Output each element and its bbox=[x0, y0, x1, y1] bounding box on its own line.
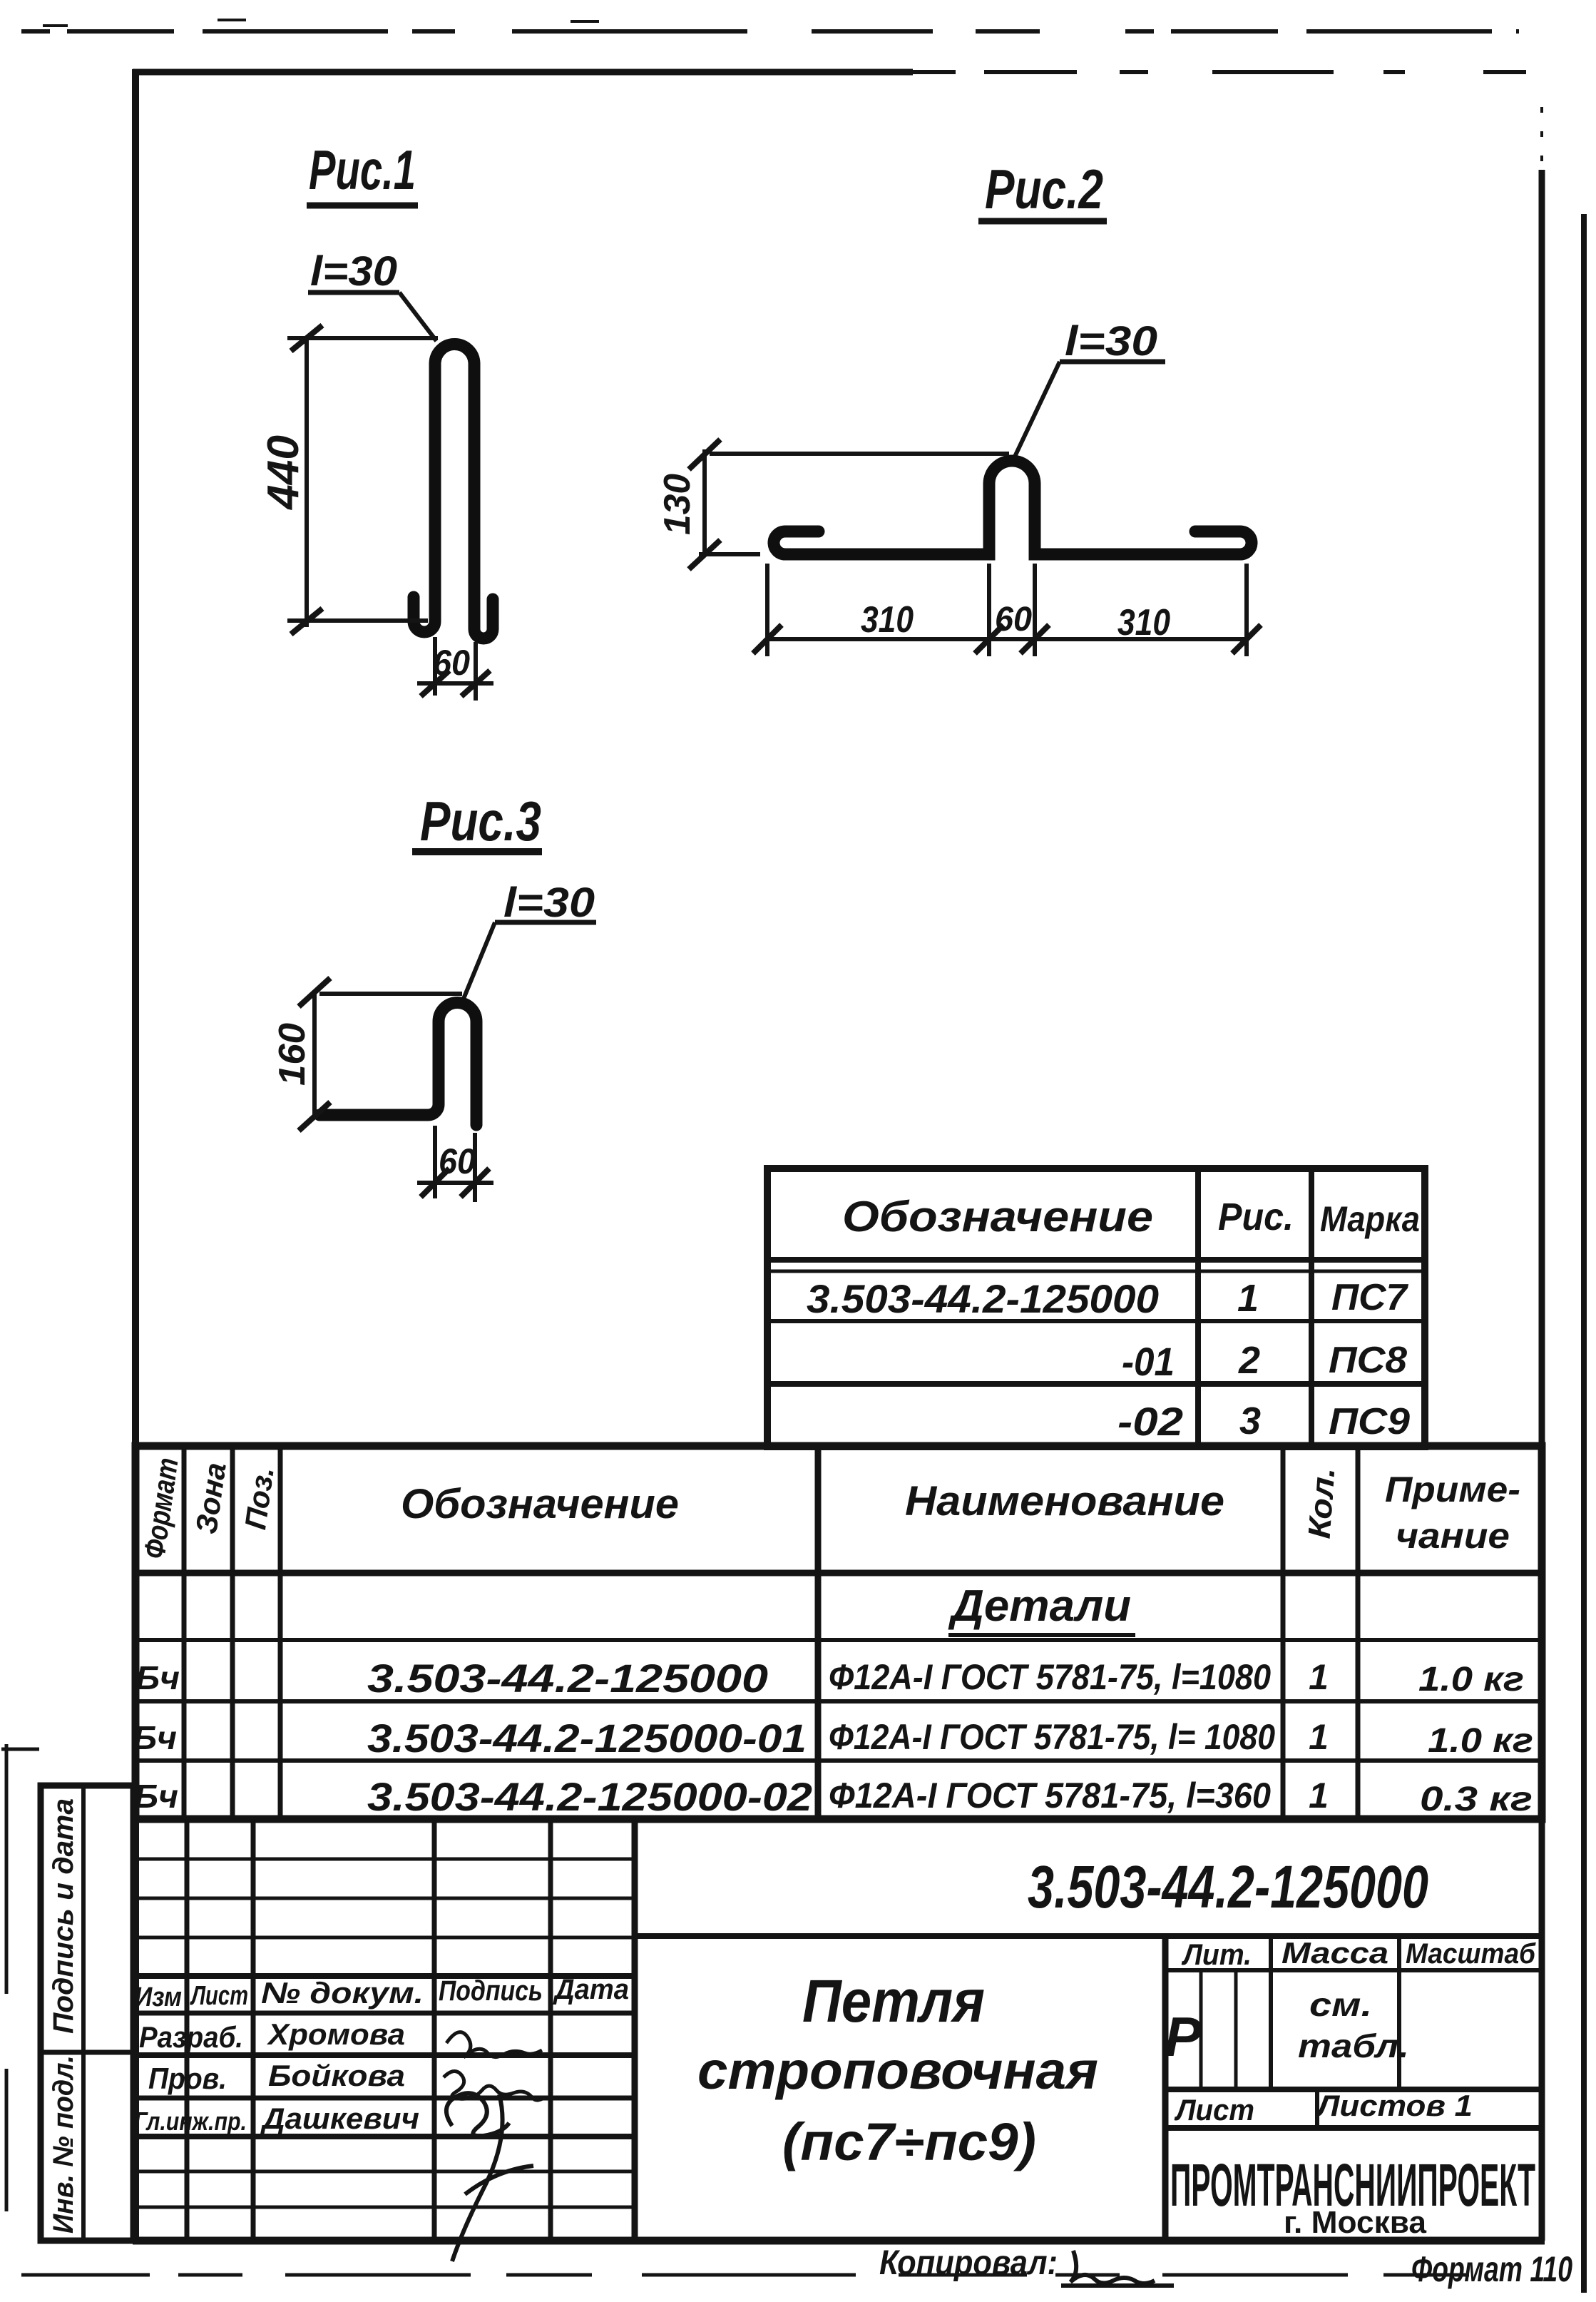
stamp ПРОМТРАНСНИИПРОЕКТ bbox=[1170, 2151, 1535, 2240]
svg-text:Кол.: Кол. bbox=[1302, 1466, 1342, 1539]
drawing frame left border bbox=[132, 69, 139, 2241]
svg-text:Рис.2: Рис.2 bbox=[985, 158, 1103, 220]
dimension 60 fig1 bbox=[417, 637, 493, 701]
page left edge artifact bbox=[5, 1744, 9, 2211]
dimension 60 fig3 bbox=[417, 1126, 493, 1202]
svg-text:130: 130 bbox=[657, 474, 698, 535]
svg-text:Разраб.: Разраб. bbox=[139, 2020, 243, 2054]
svg-text:Рис.3: Рис.3 bbox=[420, 790, 541, 852]
svg-text:Р: Р bbox=[1165, 2005, 1202, 2068]
svg-text:см.: см. bbox=[1309, 1986, 1372, 2023]
label Рис.3 bbox=[412, 790, 542, 852]
dimension 160 fig3 bbox=[272, 978, 462, 1131]
row Лист / Листов 1 bbox=[1174, 2089, 1473, 2127]
BOM section label Детали bbox=[948, 1582, 1135, 1635]
svg-text:(пс7÷пс9): (пс7÷пс9) bbox=[782, 2112, 1036, 2171]
svg-text:l=30: l=30 bbox=[1065, 318, 1157, 365]
svg-text:0.3 кг: 0.3 кг bbox=[1420, 1781, 1533, 1818]
svg-text:Ф12А-I ГОСТ 5781-75, l= 1080: Ф12А-I ГОСТ 5781-75, l= 1080 bbox=[829, 1717, 1275, 1757]
svg-text:Гл.инж.пр.: Гл.инж.пр. bbox=[134, 2107, 247, 2136]
small table row 2 bbox=[1122, 1339, 1407, 1384]
main title Петля строповочная (пс7÷пс9) bbox=[697, 1967, 1098, 2171]
svg-text:Изм: Изм bbox=[135, 1982, 182, 2012]
svg-text:3.503-44.2-125000: 3.503-44.2-125000 bbox=[807, 1276, 1159, 1321]
page right edge line bbox=[1581, 214, 1587, 2293]
top page-edge dashed line bbox=[21, 20, 1519, 31]
wire loop ПС8 fig2 bbox=[774, 461, 1252, 554]
svg-text:Рис.: Рис. bbox=[1218, 1196, 1294, 1238]
row Гл.инж.пр. Дашкевич bbox=[134, 2102, 419, 2136]
svg-text:3.503-44.2-125000: 3.503-44.2-125000 bbox=[367, 1656, 768, 1701]
svg-text:ПС7: ПС7 bbox=[1331, 1277, 1408, 1318]
svg-text:Бч: Бч bbox=[133, 1719, 177, 1756]
BOM grid bbox=[135, 1446, 1542, 1819]
svg-text:ПС9: ПС9 bbox=[1329, 1401, 1410, 1442]
svg-text:3.503-44.2-125000: 3.503-44.2-125000 bbox=[1028, 1853, 1428, 1920]
svg-text:310: 310 bbox=[1117, 602, 1170, 643]
signature Бойкова bbox=[444, 2071, 545, 2100]
value см. табл. bbox=[1298, 1986, 1409, 2064]
signature after Копировал bbox=[1061, 2251, 1174, 2286]
svg-text:Обозначение: Обозначение bbox=[401, 1481, 679, 1527]
svg-text:№ докум.: № докум. bbox=[261, 1976, 424, 2010]
svg-text:табл.: табл. bbox=[1298, 2027, 1409, 2064]
BOM row 1 bbox=[135, 1656, 1524, 1701]
note l=30 fig2 bbox=[1015, 318, 1165, 457]
svg-text:-02: -02 bbox=[1117, 1399, 1183, 1444]
svg-text:60: 60 bbox=[995, 601, 1032, 638]
svg-text:Бойкова: Бойкова bbox=[268, 2059, 405, 2092]
svg-text:Хромова: Хромова bbox=[267, 2017, 405, 2051]
small table row 1 bbox=[807, 1276, 1408, 1321]
drawing frame right border bbox=[1539, 170, 1545, 2241]
svg-text:Петля: Петля bbox=[802, 1967, 985, 2034]
svg-text:Обозначение: Обозначение bbox=[842, 1193, 1153, 1241]
svg-text:Бч: Бч bbox=[135, 1659, 180, 1696]
svg-text:160: 160 bbox=[272, 1023, 313, 1086]
note l=30 fig3 bbox=[464, 880, 596, 999]
svg-text:2: 2 bbox=[1238, 1339, 1260, 1382]
svg-text:Бч: Бч bbox=[134, 1778, 178, 1815]
svg-text:Рис.1: Рис.1 bbox=[309, 138, 416, 201]
row Разраб. Хромова bbox=[139, 2017, 405, 2054]
svg-text:1: 1 bbox=[1309, 1657, 1329, 1697]
svg-text:Масштаб: Масштаб bbox=[1406, 1938, 1536, 1970]
row Изм Лист № докум. Подпись Дата bbox=[135, 1974, 629, 2012]
svg-text:Формат 110: Формат 110 bbox=[1411, 2249, 1572, 2289]
svg-text:3.503-44.2-125000-02: 3.503-44.2-125000-02 bbox=[367, 1774, 812, 1819]
svg-text:Дашкевич: Дашкевич bbox=[260, 2102, 419, 2135]
svg-text:440: 440 bbox=[259, 435, 308, 511]
svg-text:строповочная: строповочная bbox=[697, 2041, 1098, 2100]
svg-text:1: 1 bbox=[1237, 1277, 1259, 1320]
svg-text:3: 3 bbox=[1239, 1400, 1261, 1442]
svg-text:Лит.: Лит. bbox=[1181, 1937, 1252, 1971]
svg-text:г. Москва: г. Москва bbox=[1284, 2205, 1427, 2240]
svg-text:Наименование: Наименование bbox=[905, 1478, 1224, 1524]
BOM row 3 bbox=[134, 1774, 1533, 1819]
svg-text:Ф12А-I ГОСТ 5781-75, l=1080: Ф12А-I ГОСТ 5781-75, l=1080 bbox=[829, 1657, 1271, 1697]
svg-text:l=30: l=30 bbox=[310, 248, 397, 295]
title block left grid bbox=[133, 1820, 1545, 2241]
svg-text:Пров.: Пров. bbox=[148, 2062, 227, 2095]
svg-text:Приме-: Приме- bbox=[1385, 1470, 1520, 1509]
svg-text:60: 60 bbox=[433, 643, 470, 683]
wire loop ПС9 fig3 bbox=[319, 1003, 476, 1126]
svg-text:310: 310 bbox=[861, 599, 914, 641]
label Рис.1 bbox=[307, 138, 418, 205]
document number box bbox=[635, 1853, 1542, 1936]
bottom dashed line bbox=[21, 2273, 1498, 2277]
svg-text:Масса: Масса bbox=[1282, 1936, 1388, 1970]
svg-text:Подпись и дата: Подпись и дата bbox=[48, 1798, 79, 2034]
wire loop ПС7 fig1 bbox=[414, 345, 493, 639]
BOM row 2 bbox=[133, 1716, 1533, 1761]
svg-text:Марка: Марка bbox=[1320, 1199, 1420, 1239]
strip frame bbox=[41, 1786, 133, 2241]
row Пров. Бойкова bbox=[148, 2059, 405, 2095]
signature Дашкевич large flourish bbox=[446, 2093, 533, 2261]
svg-text:Лист: Лист bbox=[190, 1981, 248, 2011]
svg-text:чание: чание bbox=[1396, 1516, 1510, 1556]
dimension 310-60-310 fig2 bbox=[753, 564, 1261, 656]
svg-text:1.0 кг: 1.0 кг bbox=[1418, 1661, 1524, 1699]
svg-text:Ф12А-I ГОСТ 5781-75, l=360: Ф12А-I ГОСТ 5781-75, l=360 bbox=[829, 1776, 1271, 1815]
label Рис.2 bbox=[978, 158, 1107, 221]
svg-text:Детали: Детали bbox=[948, 1582, 1131, 1631]
note l=30 fig1 bbox=[308, 248, 436, 341]
svg-text:3.503-44.2-125000-01: 3.503-44.2-125000-01 bbox=[367, 1716, 807, 1761]
drawing frame top border bbox=[133, 69, 913, 76]
svg-text:Листов 1: Листов 1 bbox=[1315, 2089, 1473, 2122]
svg-text:Инв. № подл.: Инв. № подл. bbox=[48, 2055, 79, 2234]
dimension 130 fig2 bbox=[657, 439, 1009, 569]
svg-text:Дата: Дата bbox=[553, 1974, 629, 2005]
svg-text:Лист: Лист bbox=[1174, 2093, 1254, 2127]
svg-text:1.0 кг: 1.0 кг bbox=[1428, 1722, 1533, 1760]
svg-text:60: 60 bbox=[439, 1141, 476, 1181]
right sub-table Лит/Масса/Масштаб bbox=[1165, 1936, 1542, 2241]
svg-text:ПС8: ПС8 bbox=[1329, 1340, 1407, 1381]
svg-text:1: 1 bbox=[1309, 1776, 1329, 1815]
svg-text:l=30: l=30 bbox=[503, 880, 595, 926]
svg-text:1: 1 bbox=[1309, 1717, 1329, 1757]
small table row 3 bbox=[1117, 1399, 1410, 1444]
small table grid bbox=[767, 1168, 1425, 1447]
dimension 440 fig1 bbox=[259, 325, 438, 634]
BOM header Примечание bbox=[1385, 1470, 1520, 1556]
svg-text:-01: -01 bbox=[1122, 1339, 1175, 1384]
signature Хромова bbox=[446, 2032, 542, 2057]
svg-text:Подпись: Подпись bbox=[439, 1975, 543, 2007]
